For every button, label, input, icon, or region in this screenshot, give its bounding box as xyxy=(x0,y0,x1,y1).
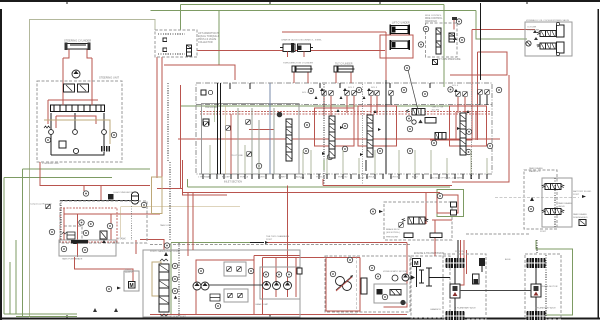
svg-text:RELIEF: RELIEF xyxy=(222,177,230,179)
svg-text:PILOT: PILOT xyxy=(125,269,132,271)
svg-text:TILT CYLINDER: TILT CYLINDER xyxy=(335,63,353,66)
svg-text:COLLECTOR: COLLECTOR xyxy=(198,41,213,44)
svg-text:INLET SECTION: INLET SECTION xyxy=(224,181,242,184)
svg-text:THE TWO CHAMBERS: THE TWO CHAMBERS xyxy=(266,235,290,238)
svg-text:1 PLANETARY AXLE: 1 PLANETARY AXLE xyxy=(535,307,556,310)
svg-text:BRAKE INCH: BRAKE INCH xyxy=(386,228,400,231)
svg-text:VBR 2.7 SE: VBR 2.7 SE xyxy=(432,107,444,109)
svg-text:AUX2: AUX2 xyxy=(412,176,418,179)
svg-text:STEERING UNIT: STEERING UNIT xyxy=(99,76,119,80)
svg-text:HYDROSTATIC MOTOR: HYDROSTATIC MOTOR xyxy=(383,270,407,273)
svg-text:GEARBOX: GEARBOX xyxy=(430,308,441,311)
svg-text:SECTION OPTIONS - LIFT ARM: SECTION OPTIONS - LIFT ARM xyxy=(430,177,462,180)
svg-text:CARRY: CARRY xyxy=(278,176,286,179)
svg-text:PRESSURE: PRESSURE xyxy=(386,237,399,239)
svg-text:PORT: PORT xyxy=(266,239,273,241)
svg-text:RIDE CONTROL: RIDE CONTROL xyxy=(425,18,443,20)
svg-text:AUX1: AUX1 xyxy=(296,176,302,179)
svg-text:PORT IN: PORT IN xyxy=(455,251,464,253)
svg-text:H-TANK: H-TANK xyxy=(117,238,126,241)
svg-text:PRESSURE: PRESSURE xyxy=(205,107,218,109)
svg-text:PORT A: PORT A xyxy=(240,176,248,179)
svg-text:PORT A2: PORT A2 xyxy=(316,176,326,179)
svg-text:Compressor Reservoir: Compressor Reservoir xyxy=(30,203,52,206)
svg-text:PORT B3: PORT B3 xyxy=(390,177,400,179)
svg-text:(S/N 427816-): (S/N 427816-) xyxy=(386,232,400,234)
svg-text:1 THERMAL: 1 THERMAL xyxy=(198,176,211,179)
svg-text:SUPPLY: SUPPLY xyxy=(125,272,134,274)
svg-text:PORT PORT PORT PORT: PORT PORT PORT PORT xyxy=(160,316,187,318)
svg-text:PORT LOADER PUMP PORT: PORT LOADER PUMP PORT xyxy=(150,250,180,253)
svg-text:TANK LINE: TANK LINE xyxy=(160,224,172,227)
svg-text:VALVE: VALVE xyxy=(558,205,565,208)
svg-text:40 LPM: 40 LPM xyxy=(432,110,440,112)
svg-text:ENGINE & TRANSMISSION: ENGINE & TRANSMISSION xyxy=(414,252,445,255)
svg-text:STEERING LINE: STEERING LINE xyxy=(42,163,59,165)
svg-text:RIDE CONTROL: RIDE CONTROL xyxy=(425,15,442,17)
svg-text:PORT: PORT xyxy=(540,231,547,233)
svg-text:CHARGE QUICK DISCONNECT - STEE: CHARGE QUICK DISCONNECT - STEEL xyxy=(281,39,323,42)
svg-text:LH ACCUMULATOR: LH ACCUMULATOR xyxy=(113,191,133,194)
svg-text:GEAR PUMP: GEAR PUMP xyxy=(255,303,269,306)
svg-text:WHEEL MOTOR: WHEEL MOTOR xyxy=(541,286,558,288)
svg-text:COOLER: COOLER xyxy=(527,27,537,29)
svg-text:PRESSURE: PRESSURE xyxy=(527,30,540,32)
svg-text:PORT: PORT xyxy=(573,194,580,196)
svg-text:PARK BRAKE: PARK BRAKE xyxy=(558,202,572,205)
svg-text:PARK BRAKE: PARK BRAKE xyxy=(529,167,543,170)
svg-text:MANIFOLD: MANIFOLD xyxy=(425,20,437,23)
svg-text:PILOT LINE: PILOT LINE xyxy=(231,155,243,157)
svg-text:SOL 3: SOL 3 xyxy=(371,87,378,89)
svg-text:PORT PORT PORT: PORT PORT PORT xyxy=(338,314,358,316)
svg-text:TANK PORT BRAKE: TANK PORT BRAKE xyxy=(62,258,83,261)
svg-text:DISENGAGED: DISENGAGED xyxy=(573,216,588,219)
svg-text:PORT B: PORT B xyxy=(258,177,267,179)
svg-text:PORT A3: PORT A3 xyxy=(366,176,376,179)
svg-text:PORT B2: PORT B2 xyxy=(338,177,348,179)
svg-text:PARK BRAKE: PARK BRAKE xyxy=(573,213,587,216)
svg-text:AXLE: AXLE xyxy=(505,258,511,261)
svg-text:HYDRAULIC OIL COOLER BYPASS VA: HYDRAULIC OIL COOLER BYPASS VALVE xyxy=(526,19,570,22)
svg-text:M: M xyxy=(130,283,134,289)
svg-text:TWIN DIRECTION CYLINDER: TWIN DIRECTION CYLINDER xyxy=(283,63,313,65)
svg-text:FACTORY FILLED: FACTORY FILLED xyxy=(573,190,592,193)
svg-text:LIFT CYLINDER: LIFT CYLINDER xyxy=(392,22,410,25)
svg-text:LIFT ARM PRESSURE: LIFT ARM PRESSURE xyxy=(437,58,461,61)
svg-text:SOL 4: SOL 4 xyxy=(452,85,459,87)
svg-text:MANIFOLD: MANIFOLD xyxy=(529,170,541,173)
svg-text:1 PLANETARY AXLE: 1 PLANETARY AXLE xyxy=(455,307,476,310)
svg-text:SOL 2: SOL 2 xyxy=(348,87,355,89)
svg-text:M: M xyxy=(414,261,419,267)
svg-text:SOL 1: SOL 1 xyxy=(302,92,309,94)
svg-text:STEERING CYLINDER: STEERING CYLINDER xyxy=(64,39,91,43)
svg-text:LIFT: LIFT xyxy=(360,178,365,180)
